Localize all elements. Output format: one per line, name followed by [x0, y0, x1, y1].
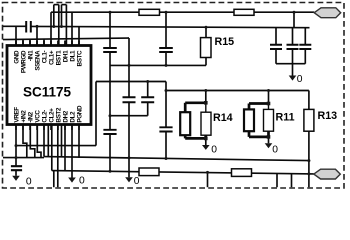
wire DH2 pin down — [64, 125, 66, 171]
capacitor C (x292.5) — [287, 45, 299, 49]
wire railB divider rail — [166, 90, 309, 92]
wire R11 stem from railB — [268, 91, 270, 104]
wire PGND pin down — [78, 125, 80, 158]
wire stub to border x207.5 — [207, 172, 209, 187]
wire BST1 pin up to bridge — [58, 5, 60, 46]
wire x129 down to ground — [128, 102, 130, 177]
wire GND pin up to rail2 — [15, 26, 17, 45]
wire R15 bottom lead to railA — [205, 58, 207, 66]
wire R14 top bar — [185, 101, 206, 104]
wire rail1 top feedback rail — [51, 11, 314, 13]
node h81.5/x147.7 — [146, 80, 149, 83]
wire CL1+ pin up to rail1 — [50, 12, 52, 45]
wire BST2 pin down to border — [57, 125, 59, 188]
wire -IN1 pin up to rail3 — [29, 39, 31, 45]
wire BSTC pin up to rail2 — [78, 27, 80, 46]
resistor R14b (right of pair) — [201, 112, 211, 135]
svg-text:-IN1: -IN1 — [27, 50, 34, 61]
ground (3-cap group) — [292, 64, 294, 76]
capacitor C (x147.7) — [141, 97, 154, 102]
svg-text:BST2: BST2 — [55, 107, 62, 122]
node h158/VREF — [15, 156, 18, 159]
port OUT1 (top right) — [314, 8, 341, 18]
wire VREF pin down — [15, 125, 17, 167]
wire CL2+ pin down to bottom rail — [51, 125, 53, 171]
ground (x129 net) — [125, 177, 133, 182]
svg-text:DL1: DL1 — [69, 50, 76, 62]
svg-text:DL2: DL2 — [69, 111, 76, 123]
wire VCC pin jog — [37, 125, 41, 158]
node h146/VREF — [15, 144, 18, 147]
IC top pin stubs — [16, 41, 79, 46]
wire 3-cap top leads — [276, 28, 305, 45]
node railA/x166 — [165, 64, 168, 67]
svg-text:CL1-: CL1- — [41, 51, 48, 64]
wire h157.6 left rail — [3, 157, 44, 159]
node rail2/SSENA — [36, 25, 39, 28]
wire PWRGD pin up to rail3 — [22, 39, 24, 45]
node rail2/x62.5 — [60, 25, 63, 28]
resistor (bottom left, unlabeled) — [139, 168, 159, 176]
node h171/x207.5 — [206, 171, 209, 174]
node h162/R13 — [307, 159, 310, 162]
wire R13 top lead from railB — [308, 91, 310, 110]
resistor (bottom right, unlabeled) — [232, 169, 252, 177]
capacitor C (x276) — [270, 45, 282, 49]
wire R14 stem from railB — [205, 91, 207, 103]
svg-text:PGND: PGND — [76, 105, 83, 123]
wire bottom rail to port — [52, 171, 314, 174]
capacitor C (x110 lower) — [103, 130, 116, 134]
svg-text:R11: R11 — [276, 112, 295, 124]
wire -IN2 pin jog — [30, 125, 35, 158]
svg-text:0: 0 — [297, 74, 303, 85]
wire h115.7 — [110, 115, 148, 117]
node rail1/x110 — [109, 11, 112, 14]
capacitor C (VREF) — [11, 166, 22, 170]
node h171/port2 — [307, 172, 310, 175]
capacitor C (x110 upper) — [103, 48, 117, 52]
svg-text:VREF: VREF — [13, 107, 20, 123]
node h162/x166 — [165, 157, 168, 160]
capacitor C (x305.3) — [299, 45, 311, 49]
IC U1 SC1175 body — [7, 46, 91, 125]
svg-text:PWRGD: PWRGD — [20, 50, 27, 73]
wire R11 right drop — [268, 104, 270, 110]
port OUT2 (bottom right) — [314, 169, 341, 179]
svg-text:BSTC: BSTC — [76, 50, 83, 66]
wire R11 top bar — [249, 102, 269, 105]
wire R14 left drop — [184, 103, 187, 112]
resistor R11a (left of pair) — [244, 109, 254, 131]
wire v294 port drop rail1 to rail2 — [293, 12, 295, 27]
wire bridge leg x61.5 — [61, 5, 63, 27]
wire riser x48.3 down to long rail — [47, 125, 49, 157]
resistor R14a (left of pair) — [180, 112, 190, 135]
svg-text:SSENA: SSENA — [34, 50, 41, 71]
wire bridge hop 2 — [62, 4, 67, 6]
wire h81.5 — [96, 81, 166, 83]
wire R11 bottom bar — [249, 131, 269, 137]
svg-text:0: 0 — [211, 145, 217, 156]
resistor (top right, unlabeled) — [234, 9, 254, 15]
svg-text:R13: R13 — [318, 110, 338, 122]
resistor R13 — [304, 109, 314, 131]
node R14 bottom joint — [204, 137, 208, 141]
wire rail2 VCC rail right segment — [31, 26, 310, 27]
node railB/R14 — [204, 89, 207, 92]
capacitor C (x129) — [123, 97, 136, 102]
svg-text:SC1175: SC1175 — [23, 85, 72, 100]
schematic dashed boundary — [3, 3, 345, 189]
node rail2/R15 — [205, 26, 208, 29]
wire +IN2 pin jog — [23, 125, 27, 158]
svg-text:-IN2: -IN2 — [27, 111, 34, 122]
svg-text:BST1: BST1 — [55, 50, 62, 65]
svg-text:CL2+: CL2+ — [48, 108, 55, 123]
svg-text:DH1: DH1 — [62, 50, 69, 62]
svg-text:0: 0 — [79, 175, 85, 186]
resistor R15 — [201, 38, 212, 58]
wire R14 right drop — [205, 103, 207, 112]
wire rail2 VCC rail left segment — [3, 25, 26, 27]
wire rail3 corner down x129 — [128, 38, 130, 97]
wire R14 bottom bar — [185, 135, 206, 138]
wire rail1 drop to cap at x110 — [109, 12, 111, 48]
ground (R11) — [268, 137, 270, 143]
svg-text:DH2: DH2 — [62, 110, 69, 122]
wire stub to border x53.8 — [53, 171, 55, 188]
wire railA feedback node — [110, 64, 206, 66]
svg-text:0: 0 — [272, 144, 278, 155]
wire DH1 pin up to bridge — [65, 5, 67, 46]
wire CL1- pin up to rail3 — [43, 39, 45, 45]
ground (DL2) — [68, 178, 76, 183]
node h158/x129 — [128, 156, 131, 159]
wire cap x110 lower lead to bottom rail — [109, 134, 111, 171]
ground (VREF cap) — [15, 170, 17, 176]
capacitor C (x166 lower) — [159, 127, 172, 131]
node R11 bar joint — [267, 102, 271, 106]
svg-text:+IN2: +IN2 — [20, 110, 27, 123]
svg-text:R15: R15 — [215, 36, 235, 48]
svg-text:CL1+: CL1+ — [48, 50, 55, 65]
wire DL2 pin down to ground — [71, 125, 73, 178]
wire 3-cap bottom leads — [276, 49, 305, 64]
wire DL1 pin up to rail1 — [71, 12, 73, 45]
node rail1/x294 — [293, 11, 296, 14]
svg-text:GND: GND — [13, 50, 20, 64]
svg-text:0: 0 — [26, 177, 32, 188]
node railB/R11 — [267, 89, 270, 92]
wire bridge hop 1 — [54, 4, 59, 6]
node h115.7/x110 — [109, 114, 112, 117]
capacitor series in rail2 — [26, 21, 31, 33]
wire cap x166 lead down to railA — [165, 52, 167, 65]
node R11 bottom joint — [267, 135, 271, 139]
wire long rail h157-160 — [44, 157, 309, 161]
wire h146 VREF net — [16, 145, 96, 147]
svg-text:R14: R14 — [213, 112, 233, 124]
wire cap147 bottom lead — [147, 102, 149, 116]
capacitor C (x166 upper) — [159, 48, 173, 52]
wire cap x110 lead down — [109, 52, 111, 130]
wire v96 down to h146 — [95, 82, 97, 146]
ground (R14) — [205, 138, 207, 145]
wire 3-cap bottom bus — [276, 63, 305, 65]
IC bottom pin stubs — [16, 125, 79, 131]
svg-text:CL2-: CL2- — [41, 110, 48, 123]
node h171/x110 — [109, 170, 112, 173]
wire bridge leg x53.8 — [53, 5, 55, 27]
wire stub to border x277 — [276, 173, 278, 187]
wire R11 left drop — [248, 104, 251, 110]
svg-text:0: 0 — [134, 176, 140, 187]
wire cap147 top lead — [147, 82, 149, 98]
svg-text:VCC: VCC — [34, 110, 41, 123]
resistor R11b (right of pair) — [264, 109, 274, 131]
node rail1/x166 — [165, 11, 168, 14]
wire R15 top lead from rail2 — [205, 27, 207, 37]
wire riser x61.5 — [61, 125, 63, 158]
node railB/x166 — [165, 89, 168, 92]
wire cap166 lower lead to h162 — [165, 132, 167, 159]
wire rail3 — [3, 38, 129, 40]
wire x166 lower drop from h81.5 — [165, 82, 167, 128]
wire CL2- pin down to long rail — [43, 125, 45, 157]
wire SSENA pin up to rail2 — [36, 26, 38, 45]
resistor (top left, unlabeled) — [139, 9, 160, 15]
wire stub to border x291.5 — [291, 174, 293, 188]
node R14 bar joint — [204, 101, 208, 105]
wire R13 bottom lead to h162 — [308, 131, 310, 187]
node railA/x129 — [128, 64, 131, 67]
wire rail1 drop to cap at x166 — [165, 12, 167, 48]
